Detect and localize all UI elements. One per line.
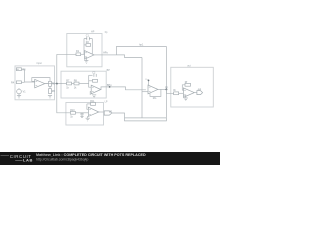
resistor R12 (output stage input) xyxy=(174,92,179,95)
wire: U6 plus stub to ground xyxy=(183,95,185,98)
svg-text:LAB: LAB xyxy=(23,158,33,163)
svg-text:LP: LP xyxy=(105,100,108,103)
node junction at difference amp output xyxy=(165,88,167,90)
wire: U5 feedback loop below xyxy=(150,89,161,96)
ground symbol (top box) xyxy=(84,61,88,64)
op-amp U2 (source box) xyxy=(35,79,45,87)
box annotation: source stage (left) xyxy=(15,66,55,100)
wire: U6 minus node link xyxy=(182,89,184,91)
resistor R6 (divider lower, right of U2) xyxy=(49,89,52,94)
svg-text:HP: HP xyxy=(91,31,95,34)
op-amp U3 (band pass) xyxy=(91,85,101,94)
box annotation: low pass stage (bottom middle) xyxy=(66,103,104,126)
node: band pass out label dot xyxy=(109,86,111,88)
wire: U2 feedback over top xyxy=(32,78,50,82)
wire: U5 power stub xyxy=(148,81,150,85)
ground symbol (divider bottom) xyxy=(48,96,52,99)
wire: R3 left to rail xyxy=(16,68,18,70)
wire: feedback loop right vertical (top box) xyxy=(91,39,93,55)
wire: feedback loop verticals (band pass) xyxy=(88,75,90,83)
wire: top box input feed xyxy=(57,53,76,55)
wire: long top bus to the right xyxy=(116,45,166,47)
logo wire decoration xyxy=(15,159,22,161)
svg-text:Matthew_Link : COMPLETED CIRCU: Matthew_Link : COMPLETED CIRCUIT WITH PO… xyxy=(36,153,146,157)
wire: U5 output to junction xyxy=(158,88,167,90)
wire: U1 output to box edge xyxy=(94,54,102,56)
svg-text:http://circuitlab.com/c8paqk43: http://circuitlab.com/c8paqk43bq4p xyxy=(36,158,89,162)
wire: R3 to divider node xyxy=(21,69,34,82)
wire: divider chain xyxy=(49,86,51,88)
wire: bottom return run xyxy=(125,117,167,119)
wire: U4 feedback loop verticals xyxy=(87,104,89,109)
wire: R10 to plus input xyxy=(75,112,88,114)
wire: dogleg from output run down xyxy=(116,55,142,58)
op-amp U6 (output stage) xyxy=(183,88,194,97)
svg-text:HPo: HPo xyxy=(103,51,108,54)
wire: U4 feedback top stubs xyxy=(87,103,91,105)
wire: feedback loop left vertical (top box) xyxy=(83,39,85,55)
svg-text:BP: BP xyxy=(107,69,111,72)
svg-text:LP: LP xyxy=(109,110,112,113)
svg-text:hp1: hp1 xyxy=(139,43,144,46)
resistor R8 (band pass series 2) xyxy=(74,82,79,85)
op-amp U5 (difference amp) xyxy=(148,85,158,94)
wire: U6 feedback loop (output stage) xyxy=(182,85,185,90)
ground symbol (low pass) xyxy=(86,118,90,121)
wire: top box output run to riser xyxy=(102,54,116,56)
wire: plus input feed from x142 xyxy=(142,91,148,93)
resistor R5 (divider upper, right of U2) xyxy=(49,81,52,86)
svg-text:input: input xyxy=(37,62,43,65)
svg-text:out: out xyxy=(198,88,202,91)
svg-text:Rf: Rf xyxy=(185,81,188,84)
wire: U4 output to box edge xyxy=(99,111,104,113)
box annotation: output stage (right) xyxy=(171,67,214,107)
resistor R9 (band pass feedback lower) xyxy=(93,79,98,82)
resistor R4 (source box, middle left) xyxy=(16,81,21,84)
wire: R8 to inverting node xyxy=(79,83,89,85)
wire: source output to band pass input xyxy=(45,83,62,85)
wire: long bus right vertical drop xyxy=(165,46,167,118)
wire: U3 output to box edge xyxy=(101,87,106,90)
wire: feedback branch stubs (top box resistor branch) xyxy=(84,44,86,46)
footer bar xyxy=(0,152,220,165)
resistor R1 (top box input) xyxy=(76,53,81,56)
wire: vertical feed x142 to difference amp xyxy=(141,58,143,118)
node: power flag dot xyxy=(148,80,150,82)
wire: U2 output to box edge xyxy=(45,83,55,85)
output flag VOUT (arrow) xyxy=(197,91,203,95)
wire: riser up to long top bus xyxy=(115,46,117,55)
node junction at x57 input xyxy=(56,83,58,85)
wire: R12 to U6 xyxy=(179,92,184,94)
ground symbol (under C3) xyxy=(80,116,83,117)
wire: low pass output dogleg to return run xyxy=(112,113,166,121)
output flag LP_OUT (arrow) xyxy=(104,111,112,115)
box annotation: high pass stage (top middle) xyxy=(67,34,102,67)
wire: band pass output run with dogleg xyxy=(106,87,146,90)
ground symbol (band pass) xyxy=(92,95,96,98)
wire: feedback loop top (band pass) xyxy=(89,74,93,76)
resistor R11 (low pass feedback) xyxy=(91,103,96,106)
svg-text:R11: R11 xyxy=(90,100,95,103)
svg-text:BPo: BPo xyxy=(107,84,112,87)
wire: band pass input xyxy=(61,83,67,85)
capacitor C2 (band pass feedback upper) xyxy=(94,74,96,77)
voltage source V1 (source box, bottom left) xyxy=(17,88,22,94)
wire: node IN vertical riser x57 xyxy=(56,54,58,83)
resistor R10 (low pass series) xyxy=(70,111,75,114)
wire: U1 plus input stub to ground xyxy=(85,57,87,61)
op-amp U1 (top box) xyxy=(85,51,95,60)
wire: R1 to op-amp inverting input xyxy=(81,53,85,55)
svg-text:R10: R10 xyxy=(70,109,75,112)
ground symbol (output stage) xyxy=(184,98,188,101)
wire: R4 to op-amp input xyxy=(21,81,24,83)
resistor R7 (band pass series 1) xyxy=(67,82,72,85)
logo lead wire xyxy=(1,155,10,157)
ground symbol (source box) xyxy=(17,94,21,98)
wire: riser to low pass input xyxy=(57,84,71,113)
wire: U6 output to port xyxy=(194,92,197,94)
wire: R7 to R8 xyxy=(72,83,75,85)
resistor R3 (source box, top left) xyxy=(16,68,21,71)
svg-text:out: out xyxy=(187,64,191,67)
op-amp U4 (low pass) xyxy=(88,107,98,116)
wire: inverting node down to U3 xyxy=(89,84,92,88)
svg-text:RG: RG xyxy=(153,97,157,100)
wire: feedback resistor branch stubs (band pass) xyxy=(89,80,93,82)
resistor R13 (output stage feedback) xyxy=(185,83,191,86)
wire: U3 plus stub to ground xyxy=(90,92,91,95)
capacitor C1 (top box feedback, upper branch) xyxy=(84,37,92,40)
wire: junction to output stage box xyxy=(166,89,173,93)
resistor R2 (top box feedback, lower branch) xyxy=(86,44,91,47)
capacitor C3 (low pass shunt) xyxy=(80,113,83,117)
wire: U4 minus stub down to ground xyxy=(87,116,89,118)
box annotation: band pass stage (middle) xyxy=(61,71,106,98)
